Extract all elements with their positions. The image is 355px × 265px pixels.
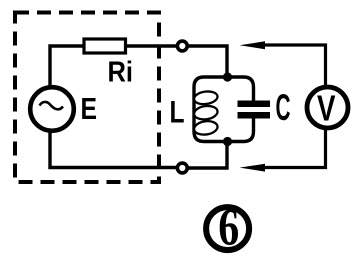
svg-text:L: L — [170, 94, 185, 130]
svg-text:Ri: Ri — [108, 57, 134, 89]
svg-text:C: C — [276, 87, 291, 128]
svg-text:V: V — [317, 88, 336, 129]
svg-text:E: E — [81, 92, 98, 126]
svg-text:6: 6 — [218, 199, 239, 257]
